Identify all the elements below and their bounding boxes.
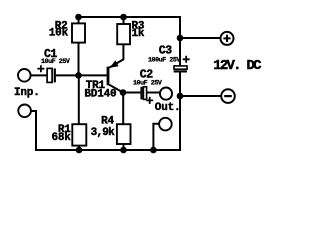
wire C1 to base node <box>56 74 107 76</box>
node R1 bottom <box>76 147 83 154</box>
wire R2 top lead <box>78 17 80 23</box>
node collector <box>120 89 127 96</box>
svg-text:Out.: Out. <box>155 102 181 114</box>
node R4 bottom <box>120 147 127 154</box>
wire input ground riser <box>31 111 36 151</box>
capacitor C2 plus <box>146 97 153 104</box>
node output ground <box>150 147 157 154</box>
battery + terminal <box>221 32 234 45</box>
capacitor C3 plus <box>183 56 190 63</box>
capacitor C3 plate box <box>174 66 187 69</box>
svg-text:68k: 68k <box>51 132 71 144</box>
resistor R3 <box>117 24 130 44</box>
input ground jack <box>18 105 31 118</box>
wire C2 to output <box>147 92 160 94</box>
resistor R2 <box>72 23 85 42</box>
node - branch <box>177 93 184 100</box>
wire R3 to emitter <box>109 44 123 67</box>
capacitor C2 plate line <box>140 87 142 100</box>
wire + battery branch <box>180 37 221 39</box>
wire bottom rail <box>36 149 181 151</box>
svg-text:3,9k: 3,9k <box>91 127 115 139</box>
svg-text:12V. DC: 12V. DC <box>213 58 262 74</box>
wire collector node to R4 <box>122 93 124 125</box>
svg-text:100uF 25V: 100uF 25V <box>148 56 180 63</box>
svg-text:Inp.: Inp. <box>14 87 40 99</box>
capacitor C1 plate box <box>47 68 52 82</box>
wire - battery branch <box>180 95 221 97</box>
resistor R4 <box>117 124 131 144</box>
wire input to C1 <box>31 74 47 76</box>
capacitor C1 plate line <box>54 68 56 82</box>
wire R4 bottom lead <box>123 144 125 150</box>
wire R3 top lead <box>123 17 125 24</box>
wire collector diagonal <box>109 85 123 93</box>
wire R2 bottom lead to node <box>78 43 80 76</box>
wire output ground <box>153 124 159 150</box>
node R2 top <box>75 14 82 21</box>
svg-text:10uF 25V: 10uF 25V <box>41 58 70 65</box>
transistor TR1 base bar <box>107 67 110 86</box>
resistor R1 <box>72 124 86 145</box>
capacitor C1 plus <box>37 65 44 72</box>
output signal jack <box>160 88 172 100</box>
capacitor C2 plate box <box>143 87 146 100</box>
output ground jack <box>159 118 172 131</box>
svg-text:10k: 10k <box>49 28 69 40</box>
node R3 top <box>120 14 127 21</box>
svg-text:BD140: BD140 <box>84 88 116 100</box>
input signal jack <box>18 69 31 82</box>
wire right rail upper (+12V) <box>179 16 181 66</box>
capacitor C3 plate line <box>174 70 187 72</box>
wire node to R1 <box>78 75 80 124</box>
svg-text:1k: 1k <box>132 28 145 40</box>
node + branch <box>177 35 184 42</box>
wire right rail lower (0V) <box>179 71 181 150</box>
wire collector to C2 <box>123 92 141 94</box>
transistor TR1 emitter arrowhead <box>110 60 119 67</box>
wire R1 bottom lead <box>78 146 80 150</box>
svg-text:R4: R4 <box>101 116 114 128</box>
battery - terminal <box>221 89 235 103</box>
node base/R1/R2/C1 <box>75 72 82 79</box>
wire top rail <box>79 16 181 18</box>
svg-text:10uF 25V: 10uF 25V <box>133 79 162 86</box>
